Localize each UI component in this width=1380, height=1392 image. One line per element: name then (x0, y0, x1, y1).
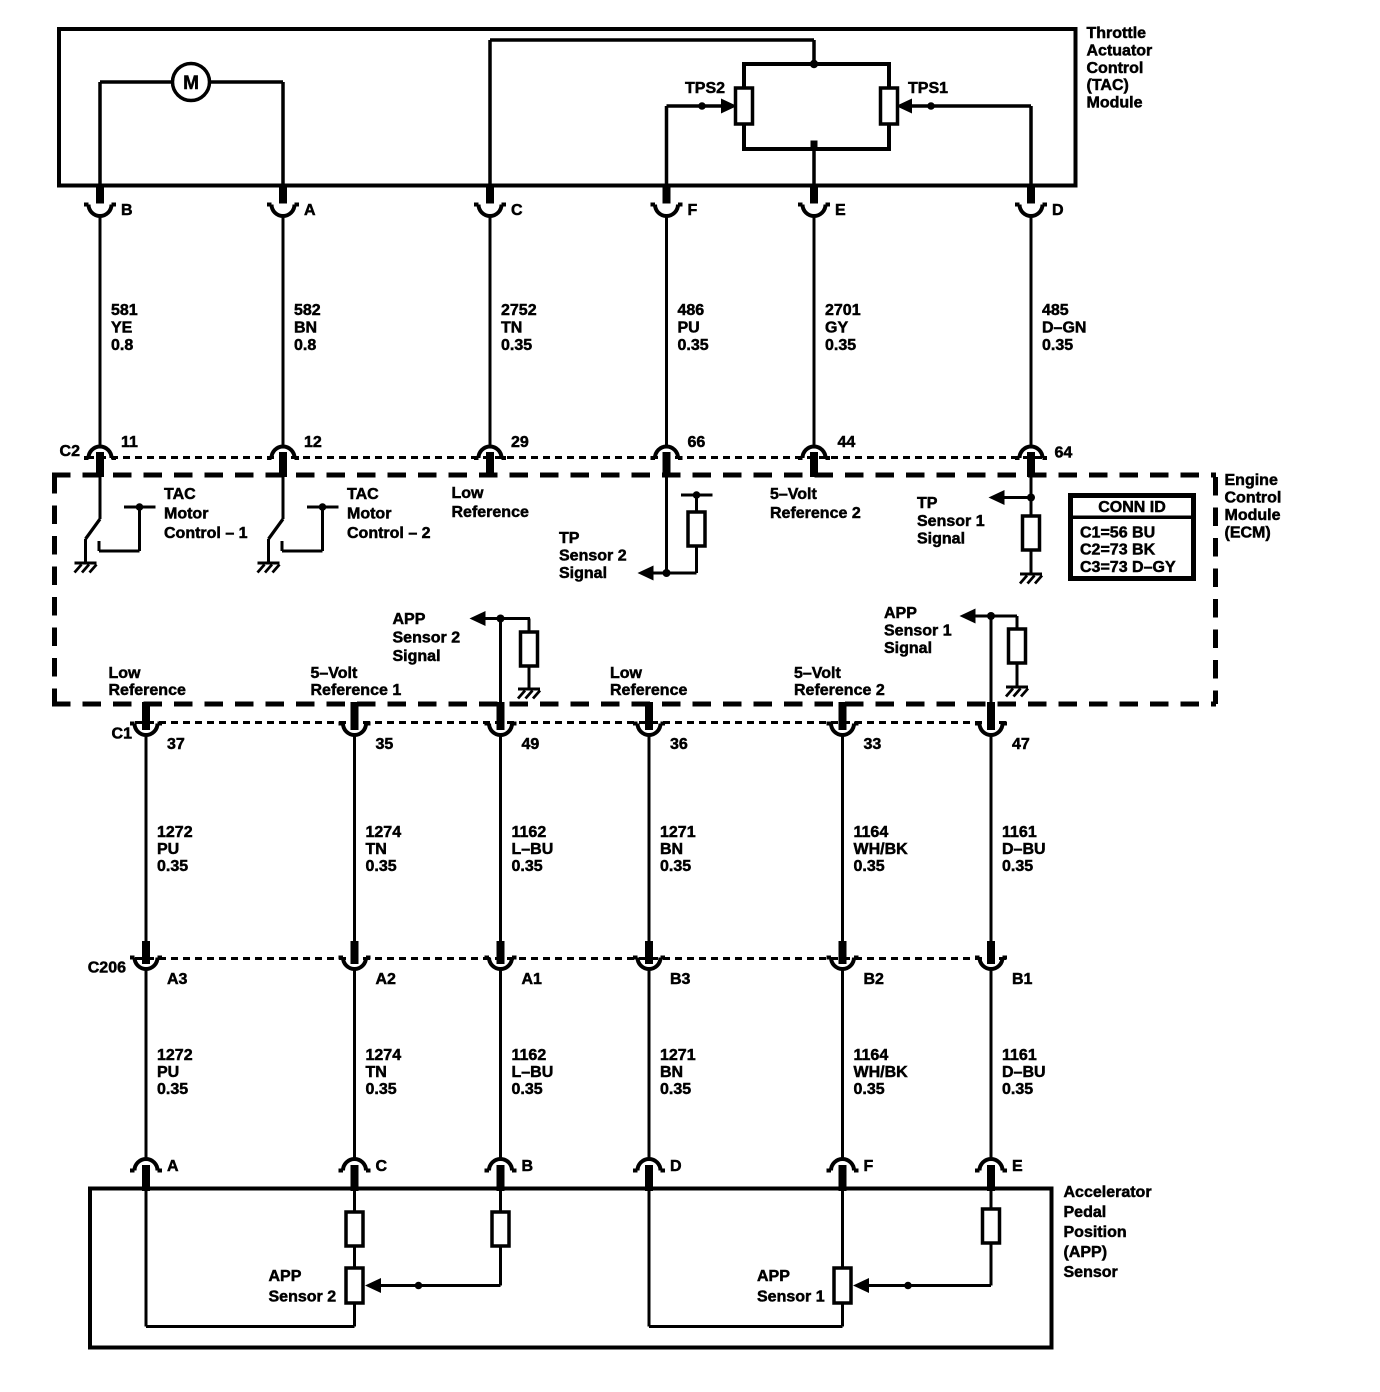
APP sensor 1 signal arrow (960, 609, 1018, 624)
C1 pin 37 (130, 702, 185, 753)
C1 pin 36 (633, 702, 688, 753)
wire pin C down (353, 1191, 356, 1212)
wire C206 B3 down (648, 969, 651, 1159)
svg-text:(ECM): (ECM) (1225, 525, 1271, 542)
wire C206 A3 down (145, 969, 148, 1159)
C206 pin B1 (975, 941, 1033, 988)
svg-text:0.35: 0.35 (678, 337, 709, 354)
wire C1 49 to C206 (499, 735, 502, 942)
svg-text:Low: Low (610, 665, 643, 682)
svg-text:D–GN: D–GN (1042, 320, 1086, 337)
ground TP sensor 1 (1020, 574, 1042, 584)
svg-text:CONN ID: CONN ID (1098, 499, 1166, 516)
APP pin B (485, 1158, 534, 1191)
svg-text:(APP): (APP) (1064, 1244, 1108, 1261)
svg-text:F: F (864, 1158, 874, 1175)
svg-text:0.35: 0.35 (512, 858, 543, 875)
svg-text:C1=56 BU: C1=56 BU (1080, 525, 1155, 542)
wire pin 66 down (665, 477, 668, 573)
wire label 1271 BN 0.35 (upper) (660, 824, 696, 875)
wire pin D low ref (649, 1191, 843, 1327)
wire resistor to pot APP2 (353, 1246, 356, 1268)
svg-text:F: F (688, 202, 698, 219)
svg-text:0.35: 0.35 (512, 1081, 543, 1098)
TAC motor control 1 gate wire (99, 503, 156, 551)
label APP Sensor 2 Signal (393, 611, 461, 665)
svg-text:1164: 1164 (854, 1047, 889, 1064)
svg-text:C2=73 BK: C2=73 BK (1080, 542, 1156, 559)
svg-text:Module: Module (1225, 507, 1281, 524)
label TP Sensor 1 Signal (917, 495, 985, 548)
wire label 582 BN 0.8 (294, 302, 321, 354)
wire APP1 junction to pin 47 (990, 616, 993, 730)
svg-text:TN: TN (501, 320, 522, 337)
wire label 2752 TN 0.35 (501, 302, 537, 354)
C206 pin B3 (633, 941, 691, 988)
svg-text:D–BU: D–BU (1002, 841, 1046, 858)
svg-text:0.35: 0.35 (157, 858, 188, 875)
svg-text:PU: PU (157, 841, 179, 858)
label 5-Volt Reference 2 (pin 33) (794, 665, 885, 699)
svg-text:5–Volt: 5–Volt (311, 665, 359, 682)
svg-text:1274: 1274 (366, 1047, 402, 1064)
TAC pin C (474, 186, 523, 219)
ECM box bottom dashed (52, 702, 1216, 707)
svg-text:Control: Control (1225, 490, 1282, 507)
C2 pin 64 (1015, 445, 1072, 478)
svg-text:0.35: 0.35 (825, 337, 856, 354)
wire C206 B1 down (990, 969, 993, 1159)
C1 pin 35 (339, 702, 394, 753)
svg-text:0.35: 0.35 (1002, 1081, 1033, 1098)
svg-text:TP: TP (559, 530, 580, 547)
svg-text:A: A (304, 202, 316, 219)
svg-text:B2: B2 (864, 971, 885, 988)
svg-text:5–Volt: 5–Volt (794, 665, 842, 682)
wire C to TPS top (490, 40, 814, 184)
svg-text:1274: 1274 (366, 824, 402, 841)
wire label 1162 L-BU 0.35 (lower) (512, 1047, 554, 1098)
svg-text:2752: 2752 (501, 302, 537, 319)
svg-text:1161: 1161 (1002, 824, 1037, 841)
svg-text:B: B (522, 1158, 534, 1175)
svg-text:C: C (376, 1158, 388, 1175)
svg-text:1162: 1162 (512, 824, 547, 841)
resistor APP2 signal (492, 1212, 509, 1246)
svg-text:BN: BN (660, 841, 683, 858)
svg-text:0.8: 0.8 (111, 337, 133, 354)
svg-text:APP: APP (757, 1268, 790, 1285)
resistor APP2 supply (346, 1212, 363, 1246)
svg-text:TPS1: TPS1 (908, 80, 948, 97)
TAC pin A (267, 186, 316, 219)
wire pin 64 down (1030, 477, 1033, 516)
APP sensor 2 signal arrow (470, 611, 531, 626)
svg-text:1161: 1161 (1002, 1047, 1037, 1064)
svg-text:36: 36 (670, 736, 688, 753)
ground TAC motor 2 (258, 563, 280, 573)
svg-text:Control: Control (1087, 60, 1144, 77)
wire label 1162 L-BU 0.35 (upper) (512, 824, 554, 875)
wire pin E down (990, 1191, 993, 1209)
wire B to C2 (99, 216, 102, 446)
svg-text:0.35: 0.35 (660, 1081, 691, 1098)
wire label 1161 D-BU 0.35 (lower) (1002, 1047, 1046, 1098)
svg-text:TN: TN (366, 1064, 387, 1081)
TP sensor 2 pull-up bar (681, 491, 713, 512)
svg-text:B: B (121, 202, 133, 219)
svg-text:0.35: 0.35 (1002, 858, 1033, 875)
wire motor left (100, 82, 173, 184)
svg-text:0.35: 0.35 (854, 858, 885, 875)
wire APP1 resistor to ground (1016, 663, 1019, 687)
wire resistor to junction (651, 546, 697, 573)
APP pin D (633, 1158, 682, 1191)
svg-text:Control – 1: Control – 1 (164, 525, 248, 542)
svg-text:Control – 2: Control – 2 (347, 525, 431, 542)
svg-text:Reference: Reference (610, 682, 687, 699)
APP pin F (827, 1158, 874, 1191)
svg-text:0.35: 0.35 (1042, 337, 1073, 354)
svg-text:Sensor 2: Sensor 2 (559, 548, 627, 565)
svg-text:A: A (167, 1158, 179, 1175)
wire resistor to ground 64 (1030, 550, 1033, 574)
svg-text:11: 11 (121, 434, 138, 451)
svg-text:Signal: Signal (393, 648, 441, 665)
label C2 (60, 443, 81, 460)
svg-text:0.35: 0.35 (366, 1081, 397, 1098)
connector C206 dotted line (135, 957, 1008, 960)
wire C206 A1 down (499, 969, 502, 1159)
svg-text:47: 47 (1012, 736, 1030, 753)
C206 pin A2 (339, 941, 397, 988)
svg-text:C206: C206 (88, 960, 126, 977)
svg-text:GY: GY (825, 320, 848, 337)
TPS2 wiper arrow (721, 99, 737, 114)
svg-text:5–Volt: 5–Volt (770, 486, 818, 503)
svg-text:Throttle: Throttle (1087, 25, 1147, 42)
connector C1 dotted line (135, 721, 1008, 724)
resistor APP1 signal (983, 1209, 1000, 1243)
label APP Sensor 1 Signal (884, 605, 952, 657)
C206 pin B2 (827, 941, 885, 988)
wire C1 33 to C206 (841, 735, 844, 942)
svg-text:A1: A1 (522, 971, 543, 988)
resistor APP sensor 2 (521, 619, 538, 667)
wire label 485 D-GN 0.35 (1042, 302, 1086, 354)
svg-text:B1: B1 (1012, 971, 1033, 988)
svg-text:Position: Position (1064, 1224, 1127, 1241)
APP pin A (130, 1158, 179, 1191)
TAC motor control 1 switch (86, 477, 101, 563)
wire D to C2 (1030, 216, 1033, 446)
svg-text:C1: C1 (112, 726, 133, 743)
ECM box top dashed (52, 473, 1216, 478)
svg-text:Sensor 2: Sensor 2 (269, 1288, 337, 1305)
TAC module label (1087, 25, 1153, 112)
svg-text:A2: A2 (376, 971, 397, 988)
wire C1 47 to C206 (990, 735, 993, 942)
APP1 wiper arrow (853, 1278, 991, 1293)
svg-text:Reference: Reference (109, 682, 186, 699)
svg-text:Actuator: Actuator (1087, 42, 1153, 59)
label TAC Motor Control - 2 (347, 486, 431, 542)
wire pin A low ref (146, 1191, 355, 1327)
svg-text:Accelerator: Accelerator (1064, 1184, 1152, 1201)
wire label 1161 D-BU 0.35 (upper) (1002, 824, 1046, 875)
svg-text:0.35: 0.35 (366, 858, 397, 875)
svg-text:Low: Low (109, 665, 142, 682)
svg-text:D: D (670, 1158, 682, 1175)
svg-text:PU: PU (157, 1064, 179, 1081)
APP sensor box (90, 1189, 1052, 1348)
C2 pin 12 (267, 434, 322, 477)
label APP Sensor 2 (269, 1268, 337, 1305)
wire APP2 junction to pin 49 (499, 619, 502, 731)
label C206 (88, 960, 126, 977)
TPS1 wiper arrow (896, 99, 912, 114)
TAC module box (59, 29, 1076, 186)
wire C1 36 to C206 (648, 735, 651, 942)
wire APP2 resistor to ground (528, 666, 531, 689)
svg-text:486: 486 (678, 302, 705, 319)
label TPS1 (908, 80, 948, 97)
TAC pin E (798, 186, 846, 219)
svg-text:Sensor 1: Sensor 1 (884, 623, 952, 640)
wire F to TPS2 wiper (667, 106, 723, 184)
svg-text:1272: 1272 (157, 1047, 193, 1064)
svg-text:1271: 1271 (660, 1047, 696, 1064)
svg-text:D: D (1052, 202, 1064, 219)
wire label 1271 BN 0.35 (lower) (660, 1047, 696, 1098)
svg-text:APP: APP (269, 1268, 302, 1285)
label C1 (112, 726, 133, 743)
wire TPS bottom to E (811, 141, 818, 185)
label 5-Volt Reference 2 (pin 44) (770, 486, 861, 522)
wire wiper up to resistor B (499, 1246, 502, 1286)
wire pin B down (499, 1191, 502, 1212)
label APP Sensor 1 (757, 1268, 825, 1305)
C206 pin A1 (485, 941, 543, 988)
svg-text:Sensor 2: Sensor 2 (393, 630, 461, 647)
TP sensor 2 signal arrow (638, 566, 654, 581)
svg-text:Low: Low (452, 485, 485, 502)
TAC motor control 2 switch (269, 477, 284, 563)
wire label 1272 PU 0.35 (lower) (157, 1047, 193, 1098)
TAC pin D (1015, 186, 1064, 219)
svg-text:D–BU: D–BU (1002, 1064, 1046, 1081)
wire pot APP1 to low ref (841, 1303, 844, 1327)
svg-text:Reference 1: Reference 1 (311, 682, 402, 699)
wire motor right (210, 82, 284, 184)
wire pin F to pot (841, 1191, 844, 1268)
label TPS2 (685, 80, 725, 97)
ECM box left dashed (52, 475, 57, 704)
ground APP sensor 1 (1006, 687, 1028, 697)
wire label 1274 TN 0.35 (upper) (366, 824, 402, 875)
svg-text:Sensor 1: Sensor 1 (917, 513, 985, 530)
wire C1 37 to C206 (145, 735, 148, 942)
svg-text:485: 485 (1042, 302, 1069, 319)
CONN ID rows (1080, 525, 1176, 576)
potentiometer TPS1 (881, 88, 898, 124)
svg-text:33: 33 (864, 736, 882, 753)
wire F to C2 (665, 216, 668, 446)
wire wiper up to resistor E (990, 1243, 993, 1286)
CONN ID title (1098, 499, 1166, 516)
svg-text:29: 29 (511, 434, 529, 451)
svg-text:PU: PU (678, 320, 700, 337)
junction dot APP1 (987, 612, 995, 620)
TAC pin B (84, 186, 133, 219)
wire D to TPS1 wiper (910, 106, 1031, 184)
svg-text:APP: APP (884, 605, 917, 622)
svg-text:0.35: 0.35 (501, 337, 532, 354)
resistor TP sensor 1 (1023, 516, 1040, 550)
junction dot APP2 (497, 615, 505, 623)
wire C to C2 (489, 216, 492, 446)
svg-text:Motor: Motor (164, 506, 208, 523)
svg-text:(TAC): (TAC) (1087, 77, 1129, 94)
wire pot APP2 to low ref (353, 1303, 356, 1327)
svg-text:582: 582 (294, 302, 321, 319)
label Low Reference (pin 29) (452, 485, 529, 521)
svg-text:TAC: TAC (164, 486, 196, 503)
svg-text:YE: YE (111, 320, 133, 337)
svg-text:Signal: Signal (917, 531, 965, 548)
svg-text:0.8: 0.8 (294, 337, 316, 354)
wire label 1164 WH/BK 0.35 (upper) (854, 824, 909, 875)
wire label 1274 TN 0.35 (lower) (366, 1047, 402, 1098)
C1 pin 33 (827, 702, 882, 753)
label 5-Volt Reference 1 (pin 35) (311, 665, 402, 699)
ECM label (1225, 472, 1282, 542)
wire label 2701 GY 0.35 (825, 302, 861, 354)
APP pin E (975, 1158, 1023, 1191)
svg-text:Sensor 1: Sensor 1 (757, 1288, 825, 1305)
svg-text:35: 35 (376, 736, 394, 753)
junction dot TPS2 wire (698, 102, 706, 110)
svg-text:TN: TN (366, 841, 387, 858)
svg-text:BN: BN (660, 1064, 683, 1081)
resistor TP sensor 2 (688, 512, 705, 546)
svg-text:WH/BK: WH/BK (854, 1064, 909, 1081)
ground TAC motor 1 (75, 563, 97, 573)
svg-text:37: 37 (167, 736, 185, 753)
wire label 486 PU 0.35 (678, 302, 709, 354)
junction dot TPS top (810, 60, 818, 68)
svg-text:Motor: Motor (347, 506, 391, 523)
svg-text:M: M (183, 73, 199, 94)
svg-text:APP: APP (393, 611, 426, 628)
svg-text:Signal: Signal (884, 640, 932, 657)
wire C1 35 to C206 (353, 735, 356, 942)
APP2 wiper arrow (365, 1278, 501, 1293)
TPS bridge rectangle (744, 64, 889, 149)
potentiometer APP sensor 1 (834, 1268, 851, 1303)
wire A to C2 (282, 216, 285, 446)
junction dot pin 66 (663, 569, 671, 577)
label Low Reference (pin 37) (109, 665, 186, 699)
svg-text:Sensor: Sensor (1064, 1264, 1118, 1281)
APP pin C (339, 1158, 388, 1191)
svg-text:E: E (1012, 1158, 1023, 1175)
svg-text:0.35: 0.35 (157, 1081, 188, 1098)
svg-text:1164: 1164 (854, 824, 889, 841)
wire label 581 YE 0.8 (111, 302, 138, 354)
potentiometer APP sensor 2 (346, 1268, 363, 1303)
svg-text:44: 44 (838, 434, 856, 451)
TAC pin F (651, 186, 698, 219)
svg-text:64: 64 (1055, 445, 1073, 462)
label Low Reference (pin 36) (610, 665, 687, 699)
svg-text:TAC: TAC (347, 486, 379, 503)
C2 pin 11 (84, 434, 138, 477)
potentiometer TPS2 (736, 88, 753, 124)
svg-text:C3=73 D–GY: C3=73 D–GY (1080, 559, 1176, 576)
svg-text:Pedal: Pedal (1064, 1204, 1107, 1221)
svg-text:Reference 2: Reference 2 (794, 682, 885, 699)
TP sensor 1 signal arrow (989, 490, 1032, 505)
svg-text:2701: 2701 (825, 302, 861, 319)
label TAC Motor Control - 1 (164, 486, 248, 542)
wire label 1272 PU 0.35 (upper) (157, 824, 193, 875)
C2 pin 29 (474, 434, 529, 477)
C2 pin 66 (651, 434, 706, 477)
wire label 1164 WH/BK 0.35 (lower) (854, 1047, 909, 1098)
ground APP sensor 2 (518, 689, 540, 699)
svg-text:TP: TP (917, 495, 938, 512)
svg-text:B3: B3 (670, 971, 691, 988)
svg-text:TPS2: TPS2 (685, 80, 725, 97)
svg-text:A3: A3 (167, 971, 188, 988)
connector C2 dotted line (87, 456, 1043, 459)
TAC motor control 2 gate wire (282, 503, 339, 551)
CONN ID box (1068, 496, 1196, 579)
ECM box right dashed (1213, 477, 1218, 704)
svg-text:1271: 1271 (660, 824, 696, 841)
svg-text:1272: 1272 (157, 824, 193, 841)
wire E to C2 (813, 216, 816, 446)
APP sensor label (1064, 1184, 1152, 1281)
svg-text:Module: Module (1087, 95, 1143, 112)
svg-text:Signal: Signal (559, 565, 607, 582)
junction dot APP1 wiper (904, 1282, 912, 1290)
svg-text:L–BU: L–BU (512, 1064, 554, 1081)
svg-text:Reference: Reference (452, 504, 529, 521)
svg-text:WH/BK: WH/BK (854, 841, 909, 858)
svg-text:E: E (835, 202, 846, 219)
wire C206 A2 down (353, 969, 356, 1159)
wire C206 B2 down (841, 969, 844, 1159)
svg-text:66: 66 (688, 434, 706, 451)
svg-text:Reference 2: Reference 2 (770, 505, 861, 522)
svg-text:L–BU: L–BU (512, 841, 554, 858)
svg-text:12: 12 (304, 434, 322, 451)
svg-text:Engine: Engine (1225, 472, 1278, 489)
C1 pin 47 (975, 702, 1030, 753)
svg-text:1162: 1162 (512, 1047, 547, 1064)
svg-text:0.35: 0.35 (660, 858, 691, 875)
motor M1 circle (173, 64, 210, 101)
C1 pin 49 (485, 702, 540, 753)
junction dot pin 64 (1027, 494, 1035, 502)
svg-text:0.35: 0.35 (854, 1081, 885, 1098)
junction dot TPS1 wire (927, 102, 935, 110)
junction dot APP2 wiper (415, 1282, 423, 1290)
resistor APP sensor 1 (1009, 616, 1026, 663)
svg-text:49: 49 (522, 736, 540, 753)
